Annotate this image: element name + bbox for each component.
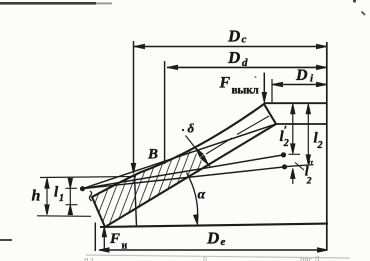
svg-text:′: ′ [284,123,288,138]
svg-text:н: н [122,241,128,252]
svg-text:1: 1 [59,193,64,204]
svg-text:2: 2 [306,177,312,187]
svg-text:e: e [221,236,226,248]
svg-text:F: F [219,75,231,92]
svg-text:″: ″ [308,158,315,172]
svg-text:δ: δ [188,121,195,136]
svg-text:D: D [227,27,240,46]
svg-text:B: B [147,147,158,163]
svg-text:и з: и з [84,255,93,261]
svg-text:d: d [242,57,248,69]
svg-text:D: D [206,229,219,248]
svg-text:c: c [242,34,247,46]
svg-text:р: р [203,254,207,261]
svg-text:2: 2 [317,140,323,151]
svg-text:выкл: выкл [232,85,260,97]
svg-text:D: D [295,67,308,84]
svg-text:F: F [109,231,120,247]
svg-text:α: α [198,188,206,203]
svg-text:пис Л: пис Л [300,255,320,261]
svg-text:i: i [310,73,314,85]
svg-text:h: h [32,188,41,205]
svg-text:2: 2 [283,138,289,149]
svg-text:D: D [227,48,240,67]
